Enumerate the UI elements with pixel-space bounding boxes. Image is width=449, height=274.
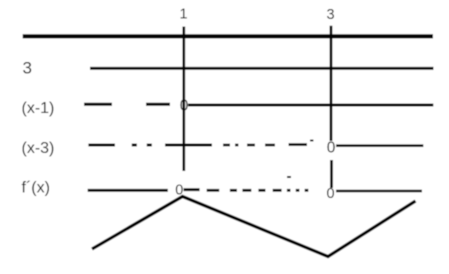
row f'(x) short line after first zero (184, 188, 200, 191)
svg-text:f´(x): f´(x) (22, 180, 50, 197)
row (x-1) positive line (188, 104, 433, 107)
row f'(x) negative dash 5 (273, 189, 282, 192)
row f'(x) negative dash 8 (305, 189, 309, 192)
svg-text:0: 0 (327, 140, 336, 157)
row (x-3) negative dash 4 (165, 144, 212, 147)
row (x-3) negative dash 3 (147, 144, 152, 147)
svg-text:3: 3 (326, 7, 334, 23)
top axis thick line (23, 34, 433, 38)
svg-text:0: 0 (326, 186, 334, 202)
row f'(x) negative dash 7 (296, 189, 300, 192)
row line for 3 (90, 67, 434, 70)
svg-text:(x-3): (x-3) (22, 140, 55, 157)
row (x-3) negative dash 7 (247, 144, 255, 147)
svg-text:3: 3 (23, 59, 32, 78)
row (x-3) negative dash 6 (235, 144, 238, 147)
vertical line at x=3 lower (330, 160, 333, 188)
vertical line at x=1 (182, 27, 185, 172)
svg-text:0: 0 (180, 98, 189, 115)
row (x-3) negative dash 9 (289, 143, 308, 146)
row f'(x) negative dash 2 (230, 189, 237, 192)
vertical line at x=3 upper (330, 26, 333, 141)
row (x-3) negative dash 8 (265, 144, 275, 147)
row (x-3) negative dash 1 (88, 144, 115, 147)
row f'(x) negative dash 6 (287, 189, 291, 192)
row (x-3) negative dash 2 (132, 144, 137, 147)
row f'(x) positive line right (336, 190, 422, 193)
row f'(x) positive line left (88, 189, 168, 192)
row f'(x) negative dash 3 (242, 189, 251, 192)
row f'(x) negative dash 1 (207, 189, 220, 192)
row (x-1) negative dash 1 (84, 103, 112, 106)
row (x-3) positive line (336, 144, 423, 147)
stray dot above dashes (287, 176, 291, 178)
row f'(x) negative dash 4 (258, 189, 265, 192)
svg-text:1: 1 (179, 7, 187, 23)
row (x-3) negative dash 5 (223, 144, 230, 147)
svg-text:(x-1): (x-1) (22, 100, 55, 117)
row (x-3) negative dash 10 (310, 140, 313, 142)
row (x-1) negative dash 2 (146, 103, 170, 106)
variation curve (92, 197, 416, 257)
